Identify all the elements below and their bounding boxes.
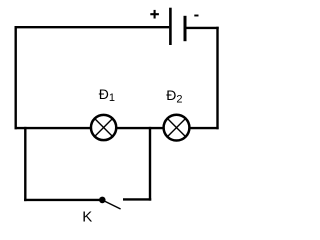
wire: top right horizontal from battery to right corner bbox=[186, 27, 219, 29]
wire: middle horizontal left segment to lamp D1 bbox=[15, 127, 92, 129]
svg-text:Đ2: Đ2 bbox=[166, 87, 182, 106]
label: + terminal bbox=[150, 10, 159, 19]
switch K: pivot dot bbox=[99, 197, 106, 204]
wire: branch right vertical (x=150) from middle wire junction down bbox=[149, 127, 151, 201]
battery B1: long positive plate bbox=[169, 8, 172, 45]
label: - terminal bbox=[194, 15, 198, 17]
wire: left vertical side bbox=[14, 26, 16, 129]
battery B1: short negative plate bbox=[184, 16, 187, 41]
wire: middle horizontal between lamps bbox=[116, 127, 164, 129]
wire: middle horizontal from lamp D2 to right side bbox=[190, 127, 219, 129]
lamp D2: circle with X bbox=[164, 115, 190, 141]
svg-text:K: K bbox=[82, 208, 92, 225]
lamp D1: circle with X bbox=[91, 115, 116, 140]
wire: right vertical side bbox=[216, 27, 218, 130]
wire: switch fixed contact horizontal bbox=[123, 198, 151, 200]
wire: bottom horizontal to switch pivot bbox=[24, 199, 100, 201]
svg-text:Đ1: Đ1 bbox=[99, 86, 115, 104]
switch K: open lever arm bbox=[104, 201, 120, 209]
wire: top left horizontal from left corner to battery + plate bbox=[15, 26, 170, 28]
wire: branch drop vertical on left (x=25) bbox=[24, 127, 26, 201]
